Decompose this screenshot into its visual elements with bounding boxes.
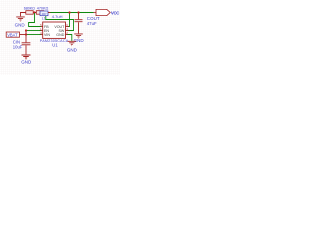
svg-text:GND: GND [74,38,85,43]
svg-text:680KΩ: 680KΩ [24,6,35,10]
ground GND2 [22,55,31,59]
op-amp U1 box [43,22,66,38]
svg-text:L1: L1 [42,16,46,20]
resistor R2 [35,12,46,14]
pin VOUT stub [66,26,69,28]
svg-text:GND: GND [21,59,32,64]
capacitor CIN [22,43,31,55]
svg-text:VBAT: VBAT [7,32,18,37]
wire VOUT riser [67,13,69,27]
capacitor COUT [75,13,83,33]
svg-text:4.7uH: 4.7uH [52,14,63,19]
wire EN net [26,30,41,32]
pin EN stub [40,30,43,32]
svg-text:GND: GND [56,33,64,37]
net flag VBAT [6,32,19,37]
junction EN tap [25,29,27,31]
inductor L1 right stub [48,12,50,14]
wire VBAT vertical [25,31,27,43]
wire SW jog [46,13,74,31]
wire FB net [29,13,41,27]
inductor L1 body [40,11,48,16]
junction VIN tap [25,33,27,35]
junction rail-VOUT [68,11,70,13]
ground GND3 [74,34,83,38]
pin FB stub [40,26,43,28]
resistor R1 [24,12,35,14]
junction rail-COUT [77,11,79,13]
wire VIN net [26,34,41,36]
wire VCC rail [46,12,94,14]
svg-text:10uF: 10uF [13,45,23,50]
pin GND stub [66,34,69,36]
svg-text:U1: U1 [52,42,58,47]
ground GND1 [16,13,25,22]
junction FB node [33,11,35,13]
power flag VCC [94,12,97,14]
wire IC GND pin [67,35,71,41]
svg-text:4R7: 4R7 [42,12,47,16]
ground GND4 [68,41,77,45]
svg-text:47uF: 47uF [87,21,97,26]
svg-text:GND: GND [67,47,78,52]
pin VIN stub [40,34,43,36]
svg-text:470KΩ: 470KΩ [37,6,49,10]
pin SW stub [66,30,69,32]
svg-text:GND: GND [15,23,26,28]
svg-text:VIN: VIN [44,33,50,37]
svg-text:VCC: VCC [111,10,119,15]
wire VBAT flag to VIN [20,34,27,36]
